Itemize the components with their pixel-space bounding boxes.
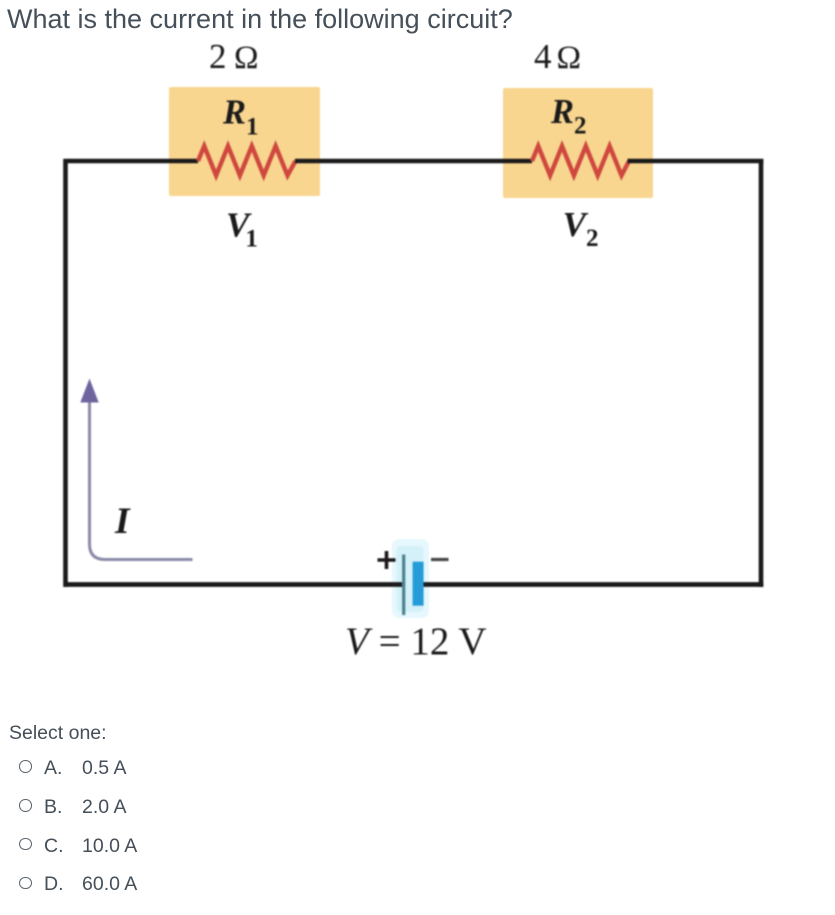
svg-text:Ω: Ω (234, 40, 259, 76)
wire top-left segment (64, 159, 199, 163)
question title (7, 4, 513, 35)
battery minus sign (431, 558, 449, 561)
svg-text:Ω: Ω (557, 40, 582, 76)
battery negative plate (short) (413, 562, 424, 606)
circuit schematic (0, 0, 835, 700)
resistor R1 zigzag (198, 146, 296, 176)
wire top-middle segment (295, 159, 532, 163)
svg-text:V1: V1 (226, 206, 258, 253)
select one prompt (9, 722, 107, 745)
svg-text:V2: V2 (563, 205, 599, 252)
option A (0, 757, 300, 781)
option C (0, 835, 300, 859)
svg-text:2: 2 (209, 37, 227, 76)
wire bottom-right segment (424, 582, 764, 587)
resistor R2 highlight box (503, 88, 653, 198)
resistor R1 highlight box (169, 87, 320, 196)
svg-text:V = 12 V: V = 12 V (345, 620, 487, 663)
wire bottom-left segment (64, 582, 403, 587)
resistor R2 zigzag (532, 146, 629, 176)
battery plus sign (378, 551, 396, 569)
wire top-right segment (628, 159, 764, 163)
option B (0, 796, 300, 820)
wire right side (759, 159, 764, 587)
current direction arrow (90, 399, 193, 560)
battery positive plate (long) (402, 555, 405, 616)
option D (0, 873, 300, 897)
svg-text:4: 4 (534, 37, 552, 76)
wire left side (63, 159, 68, 587)
battery glow (392, 539, 429, 618)
svg-text:I: I (114, 501, 131, 542)
